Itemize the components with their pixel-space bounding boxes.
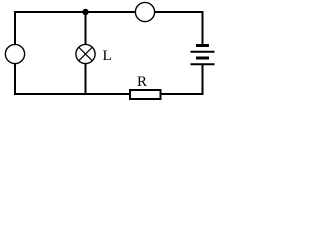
wire lamp branch upper [85, 12, 87, 45]
wire lamp branch lower [85, 64, 87, 96]
generator G (left circle) [5, 44, 24, 63]
meter U1 (top circle) [135, 2, 154, 21]
wire left lower [14, 64, 16, 96]
wire left upper [14, 11, 16, 45]
battery B1 plate long 2 [191, 63, 215, 65]
wire right lower from battery [202, 64, 204, 95]
node junction dot [82, 9, 88, 15]
battery B1 plate short 2 [196, 57, 209, 60]
lamp L circle [76, 44, 95, 63]
svg-text:L: L [103, 48, 112, 64]
wire top from ammeter to right corner [155, 11, 204, 13]
wire bottom right segment [162, 93, 204, 95]
battery B1 plate short 1 [196, 44, 209, 47]
wire bottom left segment [14, 93, 129, 95]
battery B1 plate long 1 [191, 51, 215, 53]
wire top from left corner to ammeter [14, 11, 136, 13]
resistor R box [130, 90, 161, 99]
lamp L cross [79, 47, 93, 61]
svg-text:R: R [137, 74, 147, 90]
wire right upper to battery [202, 11, 204, 45]
